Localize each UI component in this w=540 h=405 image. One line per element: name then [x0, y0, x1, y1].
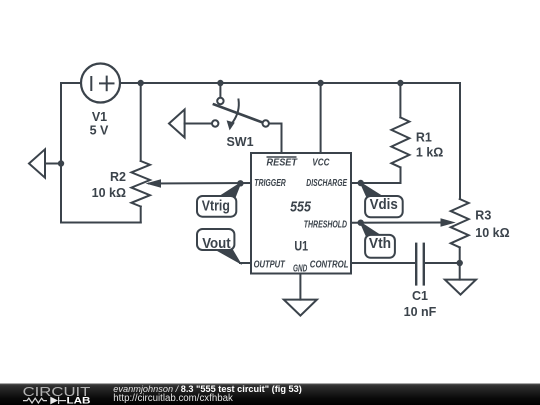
svg-text:CONTROL: CONTROL [310, 260, 349, 271]
svg-text:RESET: RESET [267, 158, 298, 169]
svg-text:LAB: LAB [67, 396, 91, 405]
svg-text:R2: R2 [110, 170, 126, 184]
svg-text:THRESHOLD: THRESHOLD [304, 219, 347, 230]
svg-text:R1: R1 [416, 131, 432, 145]
svg-text:555: 555 [290, 198, 311, 215]
svg-text:U1: U1 [294, 239, 308, 254]
svg-text:DISCHARGE: DISCHARGE [306, 178, 347, 189]
svg-text:VCC: VCC [312, 158, 330, 169]
svg-text:Vout: Vout [202, 236, 231, 252]
svg-text:GND: GND [293, 264, 307, 275]
svg-text:10 nF: 10 nF [404, 305, 437, 319]
svg-text:TRIGGER: TRIGGER [254, 178, 286, 189]
svg-text:Vtrig: Vtrig [202, 199, 230, 215]
svg-text:SW1: SW1 [226, 135, 253, 149]
svg-text:10 kΩ: 10 kΩ [92, 186, 126, 200]
svg-text:5 V: 5 V [90, 123, 109, 137]
svg-text:1 kΩ: 1 kΩ [416, 145, 443, 159]
svg-text:http://circuitlab.com/cxfhbak: http://circuitlab.com/cxfhbak [113, 393, 233, 404]
svg-text:Vth: Vth [369, 236, 391, 252]
svg-text:10 kΩ: 10 kΩ [475, 226, 509, 240]
svg-text:Vdis: Vdis [370, 197, 398, 213]
svg-text:OUTPUT: OUTPUT [254, 260, 286, 271]
svg-text:C1: C1 [412, 289, 428, 303]
svg-text:R3: R3 [475, 209, 491, 223]
svg-text:V1: V1 [92, 110, 107, 124]
